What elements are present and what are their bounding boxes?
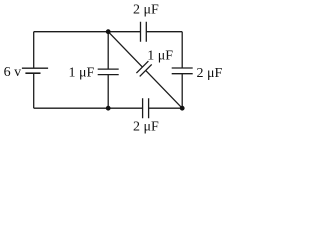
wire diagonal upper segment	[108, 32, 142, 67]
wire bottom-right segment	[149, 107, 183, 109]
svg-text:2 μF: 2 μF	[133, 119, 159, 134]
wire middle branch upper segment	[107, 32, 109, 69]
svg-text:2 μF: 2 μF	[133, 3, 159, 18]
wire right upper segment	[181, 32, 183, 68]
wire middle branch lower segment	[107, 75, 109, 109]
wire right lower segment	[181, 74, 183, 109]
capacitor C2 1uF middle plates	[98, 69, 119, 75]
wire bottom-left segment	[34, 107, 143, 109]
capacitor C4 2uF right plates	[172, 68, 193, 74]
wire top-right segment	[146, 31, 182, 33]
wire top-left segment	[34, 31, 141, 33]
capacitor C5 2uF bottom plates	[143, 98, 149, 118]
battery V1 6v long plate	[22, 67, 48, 69]
battery V1 6v short plate	[25, 72, 40, 74]
capacitor C3 1uF diagonal plates	[136, 61, 151, 76]
svg-text:1 μF: 1 μF	[147, 49, 173, 64]
node junction dot top middle	[106, 29, 111, 34]
svg-text:1 μF: 1 μF	[69, 65, 95, 80]
svg-text:2 μF: 2 μF	[197, 66, 223, 81]
capacitor C1 2uF top plates	[141, 22, 147, 42]
svg-text:6 v: 6 v	[4, 65, 22, 80]
wire left upper segment	[33, 32, 35, 68]
node junction dot bottom right	[180, 106, 185, 111]
wire left lower segment	[33, 74, 35, 108]
wire diagonal lower segment	[146, 71, 182, 109]
node junction dot bottom middle	[106, 106, 111, 111]
